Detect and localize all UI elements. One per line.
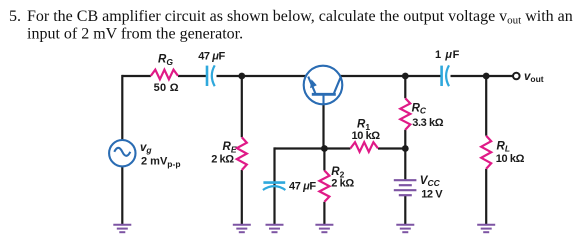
svg-text:input of 2 mV from the generat: input of 2 mV from the generator. [27,26,243,43]
svg-text:3.3 kΩ: 3.3 kΩ [412,117,443,129]
svg-text:12 V: 12 V [421,188,443,200]
svg-text:5.: 5. [9,8,21,25]
svg-text:1 μF: 1 μF [435,49,460,61]
svg-text:50 Ω: 50 Ω [154,82,179,94]
svg-text:2 kΩ: 2 kΩ [331,178,354,190]
svg-text:10 kΩ: 10 kΩ [496,153,525,165]
svg-text:For the CB amplifier circuit a: For the CB amplifier circuit as shown be… [27,8,573,27]
svg-text:10 kΩ: 10 kΩ [352,130,381,142]
svg-text:47 μF: 47 μF [198,50,225,62]
svg-text:47 μF: 47 μF [289,181,316,193]
svg-text:2 kΩ: 2 kΩ [211,153,234,165]
